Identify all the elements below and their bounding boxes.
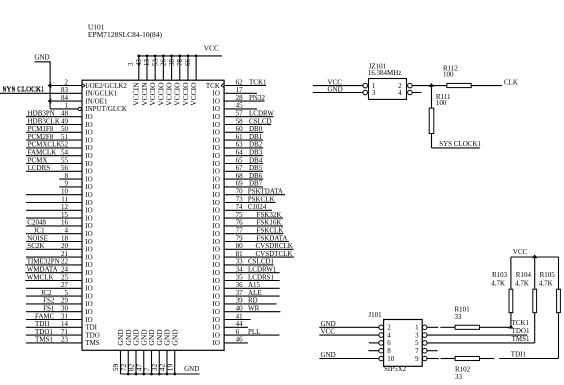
svg-text:IO: IO [85,121,92,129]
svg-text:IO: IO [85,207,92,215]
svg-text:IO: IO [213,246,220,254]
junction VCC bus at pin 13 [154,55,157,58]
svg-text:IO: IO [85,292,92,300]
svg-text:44: 44 [236,320,244,328]
J101 pin 4 bubble [379,333,384,338]
U101 pin 18 net NOISE (IO) with wire [26,234,93,246]
U101 pin 57 net LCDRW (IO) with wire [213,110,275,122]
U101 VCC pin 38 (VCCIO) vertical wire [168,56,182,106]
svg-text:IO: IO [85,269,92,277]
svg-text:R104: R104 [516,271,532,279]
junction VCC bus at pin 78 [187,55,190,58]
wire GND to J101 pin 10 [319,358,379,360]
svg-text:78: 78 [176,59,184,67]
U101 pin 28 net PN32 (IO) with wire [213,94,266,106]
svg-text:HDB3PN: HDB3PN [28,110,55,118]
U101 VCC pin 53 (VCCIO) vertical wire [151,56,165,106]
svg-text:IO: IO [85,246,92,254]
U101 GND pin 42 vertical wire [158,329,172,374]
U101 pin 17 (IO) with wire [213,86,257,98]
svg-text:DB5: DB5 [249,164,263,172]
U101 pin 8 (IO) with wire [59,172,92,184]
svg-text:12: 12 [61,203,69,211]
wire to R101 [440,326,455,328]
U101 pin 30 net FS1 (IO) with wire [26,305,93,317]
stub wire J101 pin 6 [369,342,379,344]
J101 pin 9 bubble [422,356,427,361]
svg-text:74: 74 [236,203,244,211]
svg-text:4: 4 [398,89,402,97]
U101 pin 61 net DB1 (IO) with wire [213,133,264,145]
U101 pin 6 net PLL (IO) with wire [213,328,280,340]
stub wire J101 pin 8 [368,350,379,352]
svg-text:TCK1: TCK1 [249,78,267,86]
U101 GND pin 59 vertical wire [111,329,125,374]
U101 pin 79 net FSKDATA (IO) with wire [213,234,289,246]
svg-text:LCDRS1: LCDRS1 [248,273,275,281]
svg-text:41: 41 [236,312,244,320]
svg-text:IO: IO [85,261,92,269]
wire TDI1 to R105 [499,358,558,360]
svg-text:IO: IO [85,238,92,246]
svg-text:IO: IO [213,324,220,332]
svg-text:DB4: DB4 [249,156,263,164]
svg-text:LCDRW: LCDRW [249,110,274,118]
svg-text:IO: IO [213,316,220,324]
junction VCC bus at pin 26 [170,55,173,58]
svg-text:LCDRW1: LCDRW1 [248,266,277,274]
svg-text:GND: GND [321,320,336,328]
svg-text:35: 35 [236,273,244,281]
wire R104 down to TMS1 node [534,313,536,343]
svg-text:6: 6 [387,339,391,347]
svg-text:IO: IO [85,136,92,144]
wire R101 to TCK1 node [480,326,511,328]
svg-text:GND: GND [321,351,336,359]
wire R112 to CLK [471,85,502,87]
svg-text:17: 17 [236,86,244,94]
svg-text:IN/OE1: IN/OE1 [85,97,108,105]
U101 pin 15 (IO) with wire [26,211,93,223]
U101 pin 5 net JC2 (IO) with wire [26,289,93,301]
svg-text:IO: IO [213,105,220,113]
U101 pin 83 net SYS CLOCK1 (IN/GCLK1) with wire [0,86,118,98]
svg-text:IO: IO [213,152,220,160]
svg-text:61: 61 [236,133,244,141]
junction GND bus at pin 42 [166,373,169,376]
svg-text:IO: IO [85,191,92,199]
U101 pin 64 net DB3 (IO) with wire [213,149,264,161]
svg-text:33: 33 [455,313,463,321]
junction GND vertical x pin84 wire [48,99,52,104]
wire J101 pin 3 to TDO1 [427,334,528,336]
svg-text:4.7K: 4.7K [515,280,529,288]
svg-text:IO: IO [213,168,220,176]
U101 pin 9 (IO) with wire [59,180,92,192]
U101 pin 31 net FAMC (IO) with wire [26,312,93,324]
svg-text:IO: IO [85,113,92,121]
wire R111 to SYS CLOCK1 [432,147,481,149]
svg-text:DB6: DB6 [249,172,263,180]
svg-text:16: 16 [61,219,69,227]
wire VCC bus to R103 [510,257,512,289]
U101 VCC pin 66 (VCCIO) vertical wire [184,56,198,106]
svg-text:ALE: ALE [248,289,262,297]
svg-text:FSKDATA: FSKDATA [257,234,288,242]
junction GND bus at pin 47 [142,373,145,376]
svg-text:SIP5X2: SIP5X2 [384,365,407,373]
JZ101 pin 3 bubble [363,90,368,95]
U101 pin 77 net FSKCLK (IO) with wire [213,227,284,239]
svg-text:IO: IO [213,191,220,199]
svg-text:3: 3 [127,62,135,66]
svg-text:FSK16K: FSK16K [257,219,282,227]
U101 pin 65 net DB4 (IO) with wire [213,156,264,168]
J101 pin 5 bubble [422,341,427,346]
J101 pin 10 bubble [379,356,384,361]
svg-text:EPM7128SLC84-10(84): EPM7128SLC84-10(84) [88,30,163,39]
U101 pin 75 net FSK32K (IO) with wire [213,211,283,223]
J101 pin 3 bubble [422,333,427,338]
svg-text:TDO1: TDO1 [512,327,530,335]
svg-text:80: 80 [236,242,244,250]
svg-text:67: 67 [236,164,244,172]
junction GND bus at pin 72 [127,373,130,376]
U101 pin 40 net WR (IO) with wire [213,305,281,317]
junction GND bus at pin 82 [135,373,138,376]
svg-text:IO: IO [85,253,92,261]
svg-text:IO: IO [85,285,92,293]
svg-text:PCM2F8: PCM2F8 [28,133,54,141]
svg-text:52: 52 [61,141,69,149]
svg-text:IO: IO [85,214,92,222]
svg-text:IO: IO [85,222,92,230]
svg-text:4: 4 [387,331,391,339]
U101 VCC pin 3 (VCCIN) vertical wire [127,56,141,106]
svg-text:28: 28 [236,94,244,102]
U101 pin 63 net DB2 (IO) with wire [213,141,264,153]
svg-text:IO: IO [213,222,220,230]
svg-text:TCK1: TCK1 [512,319,530,327]
resistor R112 body [447,83,471,87]
svg-text:IO: IO [213,183,220,191]
svg-text:49: 49 [61,117,69,125]
junction GND bus at pin 7 [150,373,153,376]
svg-text:GND: GND [170,329,179,346]
svg-text:81: 81 [236,250,244,258]
svg-text:R103: R103 [492,271,508,279]
svg-text:PCMXCLK: PCMXCLK [28,141,62,149]
U101 pin 68 net DB6 (IO) with wire [213,172,264,184]
svg-text:DB2: DB2 [249,141,263,149]
svg-text:TIME32PN: TIME32PN [27,258,60,266]
U101 pin 54 net FAMCLK (IO) with wire [26,149,93,161]
svg-text:38: 38 [168,59,176,67]
svg-text:CLK: CLK [504,78,518,86]
svg-text:24: 24 [61,266,69,274]
stub wire J101 pin 9 [427,358,439,360]
junction GND bus at pin 19 [173,373,176,376]
svg-text:40: 40 [236,305,244,313]
svg-text:27: 27 [61,281,69,289]
svg-text:JC1: JC1 [34,227,45,235]
svg-text:IO: IO [85,129,92,137]
U101 VCC pin 13 (VCCIO) vertical wire [143,56,157,106]
U101 GND pin 47 vertical wire [134,329,148,374]
svg-text:TMS1: TMS1 [35,336,53,344]
svg-text:46: 46 [236,336,244,344]
resistor R103 body [509,289,513,312]
svg-text:66: 66 [184,59,192,67]
svg-text:A15: A15 [248,281,261,289]
svg-text:IO: IO [85,183,92,191]
svg-text:58: 58 [236,117,244,125]
svg-text:R105: R105 [540,271,556,279]
svg-text:53: 53 [151,59,159,67]
svg-text:WMDATA: WMDATA [27,266,58,274]
U101 pin 11 (IO) with wire [26,195,93,207]
svg-text:37: 37 [236,289,244,297]
U101 pin 50 net PCM1F8 (IO) with wire [26,125,93,137]
svg-text:5: 5 [415,339,419,347]
U101 pin 23 net TMS1 (TMS) with wire [26,336,100,348]
svg-text:34: 34 [236,266,244,274]
svg-text:83: 83 [61,86,69,94]
U101 pin 29 net FS2 (IO) with wire [26,297,93,309]
svg-text:CSLCD: CSLCD [249,117,272,125]
svg-text:IO: IO [213,308,220,316]
junction VCC bus at pin 43 [146,55,149,58]
wire GND to JZ101 pin 3 [313,92,363,94]
svg-text:FAMCLK: FAMCLK [28,149,57,157]
U101 pin 81 net CVSDTCLK (IO) with wire [213,250,294,262]
U101 pin 22 net TIME32PN (IO) with wire [25,258,92,270]
U101 pin 35 net LCDRS1 (IO) with wire [213,273,280,285]
svg-text:4: 4 [65,227,69,235]
svg-text:IO: IO [85,175,92,183]
svg-text:C2048: C2048 [27,219,46,227]
svg-text:10: 10 [61,188,69,196]
svg-text:13: 13 [143,59,151,67]
GND bus wire (bottom) [121,373,200,375]
U101 pin 69 net DB7 (IO) with wire [213,180,264,192]
svg-text:IO: IO [213,136,220,144]
VCC bus wire (top) [139,55,222,57]
svg-text:WMCLK: WMCLK [27,273,54,281]
svg-text:SC2K: SC2K [27,242,44,250]
svg-text:IO: IO [213,214,220,222]
wire J101 pin 5 to TMS1/R104 [427,342,535,344]
svg-text:FS1: FS1 [43,305,55,313]
J101 pin 2 bubble [379,325,384,330]
JZ101 pin 1 bubble [363,83,368,88]
svg-text:4.7K: 4.7K [491,280,505,288]
svg-text:IO: IO [213,113,220,121]
svg-text:IO: IO [213,292,220,300]
svg-text:TCK: TCK [206,82,220,90]
svg-text:PCMX: PCMX [28,156,48,164]
svg-text:8: 8 [65,172,69,180]
svg-text:FSK32K: FSK32K [257,211,282,219]
svg-text:77: 77 [236,227,244,235]
JZ101 pin 4 bubble [408,90,413,95]
svg-text:HDB3CLK: HDB3CLK [28,117,60,125]
svg-text:57: 57 [236,110,244,118]
U101 pin 24 net WMDATA (IO) with wire [25,266,92,278]
junction GND vertical x pin2 wire [48,83,52,88]
svg-text:IO: IO [213,269,220,277]
svg-text:GND: GND [184,365,199,373]
svg-text:8: 8 [387,347,391,355]
U101 pin 45 (IO) with wire [213,102,257,114]
svg-text:IO: IO [213,160,220,168]
U101 pin 25 net WMCLK (IO) with wire [25,273,92,285]
U101 pin 10 (IO) with wire [26,188,93,200]
wire VCC bus to R105 [558,257,560,289]
junction JZ101 output node [429,83,434,87]
svg-text:20: 20 [61,242,69,250]
U101 pin 34 net LCDRW1 (IO) with wire [213,266,280,278]
svg-text:VCCIO: VCCIO [189,82,198,106]
svg-text:IO: IO [213,199,220,207]
U101 pin 33 net CSLCD1 (IO) with wire [213,258,275,270]
svg-text:84: 84 [61,94,69,102]
svg-text:IO: IO [213,238,220,246]
U101 pin 27 (IO) with wire [26,281,93,293]
svg-text:79: 79 [236,234,244,242]
svg-text:IO: IO [213,90,220,98]
wire VCC to JZ101 pin 1 [313,85,363,87]
U101 pin 48 net HDB3PN (IO) with wire [26,110,93,122]
svg-text:INPUT/GLCK: INPUT/GLCK [85,105,127,113]
svg-text:DB1: DB1 [249,133,263,141]
svg-text:73: 73 [236,195,244,203]
svg-text:IO: IO [213,331,220,339]
U101 VCC pin 78 (VCCIO) vertical wire [176,56,190,106]
svg-text:9: 9 [65,180,69,188]
U101 VCC pin 43 (VCCIN) vertical wire [135,56,149,106]
svg-text:J101: J101 [368,311,382,319]
stub wire J101 pin 1 [427,326,438,328]
svg-text:64: 64 [236,149,244,157]
svg-text:IO: IO [85,152,92,160]
wire JZ101 pin 2 to junction [412,85,432,87]
junction VCC bus at pin 53 [162,55,165,58]
svg-text:SYS CLOCK1: SYS CLOCK1 [439,140,481,148]
svg-text:PN32: PN32 [249,94,265,102]
U101 pin 62 net TCK1 (TCK) with wire [206,78,267,90]
svg-text:TDI1: TDI1 [511,350,527,358]
svg-text:SYS CLOCK1: SYS CLOCK1 [3,85,45,93]
U101 pin 41 (IO) with wire [213,312,251,324]
svg-text:5: 5 [65,289,69,297]
U101 pin 58 net CSLCD (IO) with wire [213,117,272,129]
svg-text:VCC: VCC [513,248,528,256]
U101 pin 80 net CVSDRCLK (IO) with wire [213,242,294,254]
U101 pin 46 (IO) with wire [213,336,248,348]
svg-text:IO: IO [213,339,220,347]
svg-text:CSLCD1: CSLCD1 [248,258,275,266]
U101 GND pin 7 vertical wire [142,329,156,374]
svg-text:6: 6 [236,328,240,336]
svg-text:FSKCLK: FSKCLK [257,227,284,235]
U101 pin 37 net ALE (IO) with wire [213,289,280,301]
U101 pin 21 (IO) with wire [26,250,93,262]
svg-text:18: 18 [61,234,69,242]
resistor R111 body [429,108,434,133]
U101 pin 70 net PSKTDATA (IO) with wire [213,188,286,200]
svg-text:10: 10 [387,355,395,363]
J101 pin 6 bubble [379,341,384,346]
svg-text:PLL: PLL [248,328,260,336]
svg-text:CVSDRCLK: CVSDRCLK [256,242,293,250]
svg-text:RD: RD [248,297,258,305]
oscillator JZ101 body [369,79,407,100]
wire VCC bus to R104 [534,257,536,289]
wire GND symbol vertical down to pin1 row [49,62,51,109]
U101 VCC pin 26 (VCCIO) vertical wire [160,56,174,106]
U101 GND pin 32 vertical wire [150,329,164,374]
J101 pin 8 bubble [379,348,384,353]
svg-text:IO: IO [213,285,220,293]
svg-text:62: 62 [236,78,244,86]
U101 pin 1 inverting bubble [78,107,81,110]
resistor R101 body [455,325,479,329]
svg-text:22: 22 [61,258,69,266]
svg-text:C1024: C1024 [248,203,267,211]
U101 pin 67 net DB5 (IO) with wire [213,164,264,176]
wire R103 down to TCK1 node [510,313,512,328]
svg-text:PSKTDATA: PSKTDATA [248,188,283,196]
U101 pin 49 net HDB3CLK (IO) with wire [26,117,93,129]
svg-text:11: 11 [61,195,68,203]
U101 pin 12 (IO) with wire [26,203,93,215]
wire GND to J101 pin 2 [319,326,379,328]
svg-text:IO: IO [213,261,220,269]
svg-text:68: 68 [236,172,244,180]
U101 TCK pin input arrow [221,83,224,87]
svg-text:70: 70 [236,188,244,196]
svg-text:TMS1: TMS1 [512,335,530,343]
svg-text:IO: IO [85,199,92,207]
U101 pin 14 net TDI1 (TDI) with wire [26,320,98,332]
svg-text:IO: IO [213,175,220,183]
svg-text:25: 25 [61,273,69,281]
svg-text:JC2: JC2 [41,289,52,297]
resistor R104 body [533,289,537,312]
svg-text:LCDRS: LCDRS [28,164,51,172]
svg-text:IO: IO [85,168,92,176]
svg-text:DB0: DB0 [249,125,263,133]
svg-text:TDO: TDO [85,331,99,339]
svg-text:15: 15 [61,211,69,219]
wire R111 down [431,134,433,148]
svg-text:45: 45 [236,102,244,110]
svg-text:IO: IO [85,277,92,285]
ground symbol GND (top-left) [34,54,50,62]
svg-text:54: 54 [61,149,69,157]
connector J101 body [384,320,423,367]
svg-text:IO: IO [213,300,220,308]
svg-text:DB3: DB3 [249,149,263,157]
svg-text:60: 60 [236,125,244,133]
J101 pin 1 bubble [422,325,427,330]
svg-text:IO: IO [213,97,220,105]
svg-text:21: 21 [61,250,69,258]
wire R105 down to TDI1 node [558,313,560,359]
U101 pin 55 net PCMX (IO) with wire [26,156,93,168]
U101 pin 71 net TDO1 (TDO) with wire [26,328,100,340]
